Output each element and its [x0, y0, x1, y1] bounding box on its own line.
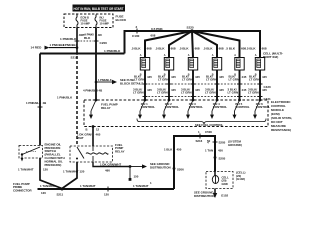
svg-text:4B: 4B: [99, 89, 103, 93]
svg-text:G102: G102: [221, 193, 228, 197]
svg-text:CONTROL: CONTROL: [235, 105, 250, 109]
svg-text:S206: S206: [177, 167, 184, 171]
svg-text:1 PNK/BLK: 1 PNK/BLK: [63, 43, 79, 47]
ECM output pin to fuel pump relay: [77, 125, 101, 146]
brace grouping injector controls: [137, 119, 266, 127]
svg-text:1 TAN/WHT: 1 TAN/WHT: [80, 184, 96, 188]
svg-text:B: B: [86, 127, 88, 131]
svg-text:BLOCK: BLOCK: [116, 18, 127, 22]
svg-text:HOT IN RUN, BULB TEST OR START: HOT IN RUN, BULB TEST OR START: [74, 7, 125, 11]
injector 4: [212, 58, 221, 71]
injector bottom wire labels (upper): [134, 74, 267, 81]
wire: BLK ground link through C500, splice S206: [164, 136, 215, 189]
ECM entry: INJ 3 control node: [186, 99, 203, 119]
ECM entry: INJ 5 control node: [233, 99, 250, 119]
relay coil ground side: [93, 162, 171, 181]
injector 2: [164, 58, 173, 71]
svg-text:465: 465: [96, 133, 101, 137]
svg-text:445: 445: [171, 75, 176, 79]
svg-text:A: A: [212, 54, 214, 57]
svg-text:PRESSURE): PRESSURE): [45, 163, 62, 167]
svg-text:490: 490: [105, 168, 110, 172]
wire: right fuse down to ECM: [84, 28, 103, 101]
svg-text:445: 445: [195, 75, 200, 79]
ECM entries: fuel pump power: [89, 99, 118, 119]
svg-text:LT GRN: LT GRN: [157, 91, 168, 95]
svg-text:608: 608: [262, 46, 267, 50]
C500 connector tick on ground link: [196, 130, 213, 143]
svg-text:.5 BLK: .5 BLK: [131, 46, 141, 50]
svg-text:LT GRN: LT GRN: [228, 91, 239, 95]
ground G102 off-page arrow: [194, 189, 228, 199]
svg-text:4B: 4B: [43, 101, 47, 105]
svg-text:S205: S205: [219, 156, 226, 160]
injector 3: [188, 58, 197, 71]
svg-text:C100: C100: [132, 34, 140, 38]
svg-text:CONTROL: CONTROL: [213, 105, 228, 109]
svg-text:1 PNK/BLK: 1 PNK/BLK: [98, 78, 112, 82]
svg-text:.5 BLK: .5 BLK: [226, 46, 236, 50]
injector 1: [140, 58, 149, 71]
svg-text:608: 608: [219, 46, 224, 50]
svg-text:445: 445: [219, 88, 224, 92]
splice S225 (injector feed junction): [187, 26, 195, 33]
svg-text:2: 2: [136, 25, 138, 29]
svg-text:0.5 PNK: 0.5 PNK: [151, 27, 163, 31]
oil switch output wire down + diagonal to S211: [18, 158, 62, 189]
svg-text:GND: GND: [222, 182, 228, 186]
connector C200 dashes between fuse wires: [75, 41, 108, 45]
svg-text:1 BLK: 1 BLK: [164, 148, 173, 152]
svg-text:LT GRN: LT GRN: [248, 91, 259, 95]
svg-text:1 PNK/BLK: 1 PNK/BLK: [57, 96, 73, 100]
svg-text:S211: S211: [57, 193, 64, 197]
svg-text:LT GRN: LT GRN: [249, 78, 260, 82]
svg-text:.5 BLK: .5 BLK: [203, 46, 213, 50]
svg-text:DISTRIBUTION: DISTRIBUTION: [194, 194, 215, 198]
svg-text:S225: S225: [187, 26, 195, 30]
svg-text:450: 450: [177, 148, 182, 152]
svg-text:608: 608: [151, 33, 156, 37]
svg-text:RELAY: RELAY: [101, 106, 111, 110]
svg-text:445: 445: [195, 88, 200, 92]
svg-text:BLOCK DETAILS: BLOCK DETAILS: [120, 81, 143, 85]
svg-text:C420: C420: [264, 85, 272, 89]
ground G102 (ground screw, dashed box): [206, 172, 233, 189]
svg-text:445: 445: [147, 75, 152, 79]
fuel pump prime connector text: [13, 182, 32, 193]
svg-text:.5 BLK: .5 BLK: [155, 46, 165, 50]
svg-text:C200: C200: [100, 41, 108, 45]
relay internals: switch blade + coil: [77, 147, 84, 159]
svg-text:CONTROL: CONTROL: [256, 105, 271, 109]
feed arrow from left (RUN feed): [31, 43, 79, 50]
injector drop labels: [131, 46, 267, 50]
injector pin letters: [140, 54, 257, 77]
injector 6: [255, 58, 264, 71]
svg-text:BLK: BLK: [84, 36, 91, 40]
relay output to fuel pump bus: [62, 162, 85, 189]
svg-text:A: A: [255, 54, 257, 57]
svg-text:445: 445: [262, 75, 267, 79]
svg-text:S205: S205: [219, 141, 226, 145]
svg-text:LT GRN: LT GRN: [206, 78, 217, 82]
svg-text:1 PNK/BLK: 1 PNK/BLK: [104, 49, 121, 53]
svg-text:120: 120: [104, 192, 109, 196]
fuse INJ (right fuse symbol): [95, 15, 109, 29]
svg-text:SEE FUEL CONTROL: SEE FUEL CONTROL: [195, 123, 224, 127]
connector row 1 (dashed, y=84): [143, 84, 272, 89]
svg-text:RELAY: RELAY: [115, 150, 125, 154]
svg-text:4 PNK/BLK: 4 PNK/BLK: [83, 89, 99, 93]
injector bottom wires: [145, 70, 260, 100]
svg-text:120: 120: [43, 168, 48, 172]
svg-text:10 AMP: 10 AMP: [100, 22, 110, 26]
svg-text:12: 12: [96, 127, 100, 131]
svg-text:A: A: [234, 54, 236, 57]
svg-text:1 TAN: 1 TAN: [205, 149, 213, 153]
ECM entry: INJ 4 control node: [210, 99, 227, 119]
svg-text:CONTROL: CONTROL: [165, 105, 180, 109]
node S205 / system ground labels: [205, 140, 242, 161]
title bar HOT IN RUN: [73, 5, 126, 12]
fuse ECM B (left fuse symbol): [76, 15, 90, 29]
svg-text:1 DK GRN/WHT: 1 DK GRN/WHT: [100, 162, 121, 166]
svg-text:DISTRIBUTION: DISTRIBUTION: [150, 166, 171, 170]
svg-text:LT GRN: LT GRN: [133, 91, 144, 95]
fuse block dashed box: [64, 14, 113, 28]
svg-text:A: A: [188, 54, 190, 57]
svg-text:1 PNK/BLK: 1 PNK/BLK: [60, 37, 77, 41]
svg-text:C500: C500: [205, 130, 212, 134]
svg-text:150: 150: [134, 174, 139, 178]
oil pressure switch S1 (dashed box): [19, 146, 43, 162]
svg-text:445: 445: [242, 88, 247, 92]
svg-text:A: A: [164, 54, 166, 57]
svg-text:445: 445: [147, 88, 152, 92]
svg-text:PORT INJ): PORT INJ): [263, 55, 278, 59]
svg-text:CONTROL: CONTROL: [141, 105, 156, 109]
fuel pump relay K1 (dashed box): [70, 146, 113, 162]
dashed alt wire from S210 down to relay (x=77): [57, 56, 77, 146]
svg-text:608: 608: [195, 46, 200, 50]
wire: left fuse down to bus: [60, 28, 85, 54]
svg-text:S216: S216: [196, 139, 203, 143]
svg-text:1 TAN/WHT: 1 TAN/WHT: [18, 168, 34, 172]
svg-text:LT GRN: LT GRN: [229, 78, 240, 82]
svg-text:1 TAN/WHT: 1 TAN/WHT: [40, 184, 56, 188]
svg-text:WHT: WHT: [77, 136, 84, 140]
wire: TAN/WHT fuel pump feed with splice S211: [38, 181, 175, 197]
svg-text:1 TAN/WHT: 1 TAN/WHT: [63, 170, 79, 174]
svg-text:GROUND): GROUND): [228, 143, 242, 147]
wire from bus corner down (x=40): [26, 54, 46, 146]
svg-text:608: 608: [171, 46, 176, 50]
svg-text:LT GRN: LT GRN: [205, 91, 216, 95]
svg-text:.5 BLK: .5 BLK: [246, 46, 256, 50]
svg-text:(G102): (G102): [236, 177, 245, 181]
svg-text:1 PNK/BLK: 1 PNK/BLK: [26, 101, 42, 105]
bus corner up to top feed line: [125, 25, 193, 54]
svg-text:445: 445: [219, 75, 224, 79]
svg-text:450: 450: [218, 149, 223, 153]
injector bottom wire labels (lower): [133, 87, 267, 94]
fan wires: [145, 31, 260, 58]
svg-text:10 AMP: 10 AMP: [81, 22, 91, 26]
svg-text:CONNECTOR: CONNECTOR: [13, 189, 32, 193]
svg-text:1 TAN/WHT: 1 TAN/WHT: [133, 184, 149, 188]
svg-text:RESISTANCE): RESISTANCE): [271, 128, 291, 132]
wire: PNK/BLK feed bus with splice S210: [40, 49, 125, 60]
svg-text:120: 120: [41, 191, 46, 195]
connector row 2 (dashed, y=96.5): [143, 97, 272, 102]
ECM entry: INJ 1 control node: [138, 99, 155, 119]
injector 5: [235, 58, 244, 71]
ECM entry: INJ 6 control node: [253, 99, 270, 119]
svg-text:.5 BLK: .5 BLK: [179, 46, 189, 50]
svg-text:445: 445: [242, 75, 247, 79]
svg-text:LT GRN: LT GRN: [182, 78, 193, 82]
svg-text:LT GRN: LT GRN: [158, 78, 169, 82]
svg-text:608: 608: [147, 46, 152, 50]
svg-text:120: 120: [80, 170, 85, 174]
oil switch text: [45, 142, 65, 166]
ECM right side text: [271, 100, 292, 132]
svg-text:445: 445: [171, 88, 176, 92]
ECM entry: INJ 2 control node: [162, 99, 179, 119]
svg-text:CONTROL: CONTROL: [189, 105, 204, 109]
svg-text:LT GRN: LT GRN: [181, 91, 192, 95]
svg-text:14 RED: 14 RED: [31, 46, 43, 50]
svg-text:A: A: [140, 54, 142, 57]
